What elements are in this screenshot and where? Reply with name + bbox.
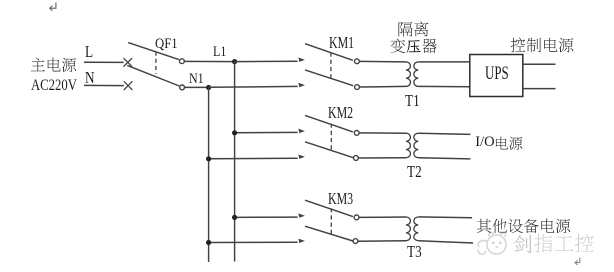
wire T2 output bottom xyxy=(418,158,470,159)
node L1 junction xyxy=(232,59,237,64)
label isolation 隔离 xyxy=(397,21,429,37)
wire N1 to KM1 xyxy=(209,85,298,88)
contactor KM2 pole2 blade xyxy=(305,142,353,158)
wire N lead xyxy=(84,84,124,86)
transformer T1 primary coil xyxy=(406,62,410,87)
wire KM3 to T3 bottom xyxy=(358,240,406,243)
transformer T1 secondary coil xyxy=(414,62,418,87)
bus N1 vertical xyxy=(208,88,210,263)
wire UPS output bottom xyxy=(523,88,556,90)
label main-power 主电源 xyxy=(30,57,77,73)
arrow into KM1 top xyxy=(298,58,305,62)
wire KM2 to T2 bottom xyxy=(358,157,406,159)
label transformer 变压器 xyxy=(390,38,437,54)
contactor KM3 pole2 contact xyxy=(353,239,358,244)
contactor KM2 pole1 blade xyxy=(305,115,353,131)
wire KM2 to T2 top xyxy=(359,132,406,134)
label T1 xyxy=(405,93,420,110)
arrow into KM3 bottom xyxy=(298,239,305,243)
contactor KM1 pole1 blade xyxy=(305,44,353,61)
label T3 xyxy=(407,244,422,261)
wire KM3 to T3 top xyxy=(359,216,406,218)
arrow into KM3 top xyxy=(298,213,305,217)
watermark 剑指工控 xyxy=(513,233,595,253)
label KM1 xyxy=(329,34,354,51)
contactor KM2 pole2 contact xyxy=(354,156,359,161)
junction L1-KM2 tap xyxy=(232,130,237,135)
wire KM1 to T1 top xyxy=(359,60,406,63)
label other-equip-power 其他设备电源 xyxy=(476,218,571,234)
transformer T3 primary coil xyxy=(406,217,410,241)
contactor KM3 pole1 contact xyxy=(354,215,359,220)
contactor KM1 pole1 contact xyxy=(355,59,360,64)
label QF1 xyxy=(155,37,178,52)
node N1 junction xyxy=(206,85,211,90)
wire T3 output top xyxy=(418,216,472,219)
terminal x N xyxy=(124,81,133,90)
watermark logo icon xyxy=(478,232,506,254)
wire T1 to UPS top xyxy=(418,61,470,63)
label control-power 控制电源 xyxy=(510,37,574,53)
wire L1 bus to KM3 xyxy=(235,216,298,218)
contactor KM1 pole2 blade xyxy=(305,70,353,86)
breaker QF1 link (dashed) xyxy=(155,52,157,75)
wire N1 bus to KM3 xyxy=(209,241,298,243)
label AC220V xyxy=(31,78,77,94)
junction L1-KM3 tap xyxy=(232,215,237,220)
junction N1-KM3 tap xyxy=(206,240,211,245)
label UPS xyxy=(485,64,509,83)
label L xyxy=(85,44,93,61)
return mark (bottom right) xyxy=(575,258,580,265)
breaker QF1 pole N contact xyxy=(180,85,185,90)
breaker QF1 pole L contact xyxy=(180,59,185,64)
transformer T3 secondary coil xyxy=(414,217,418,241)
arrow into KM2 bottom xyxy=(298,155,305,159)
bus L1 vertical xyxy=(234,62,236,262)
UPS unit box xyxy=(470,55,523,97)
label IO-power 电源 xyxy=(494,136,523,151)
wire KM1 to T1 bottom xyxy=(359,85,406,88)
contactor KM1 link (dashed) xyxy=(330,53,332,79)
contactor KM2 link (dashed) xyxy=(330,124,332,150)
wire L1 bus to KM2 xyxy=(235,131,298,133)
wire QF1 to L1 xyxy=(184,60,234,62)
arrow into KM2 top xyxy=(298,129,305,133)
contactor KM3 pole1 blade xyxy=(305,200,353,216)
arrow into KM1 bottom xyxy=(298,83,305,87)
return mark (top) xyxy=(50,2,56,10)
transformer T2 secondary coil xyxy=(414,133,418,158)
wire T3 output bottom xyxy=(418,241,473,243)
label KM2 xyxy=(328,104,353,121)
breaker QF1 pole N blade xyxy=(127,65,179,86)
contactor KM3 link (dashed) xyxy=(330,208,332,234)
label I/O xyxy=(475,135,494,150)
label L1 xyxy=(213,45,226,60)
wire N1 bus to KM2 xyxy=(209,157,298,160)
terminal x L xyxy=(124,58,133,67)
junction N1-KM2 tap xyxy=(206,156,211,161)
wire QF1 to N1 xyxy=(185,86,209,88)
wire T2 output top xyxy=(418,133,470,134)
breaker QF1 pole L blade xyxy=(128,43,179,60)
label KM3 xyxy=(328,190,353,207)
label N1 xyxy=(189,72,204,87)
label T2 xyxy=(407,164,422,181)
label N xyxy=(85,70,95,87)
contactor KM2 pole1 contact xyxy=(354,131,359,136)
wire L lead xyxy=(84,61,124,63)
contactor KM1 pole2 contact xyxy=(355,85,360,90)
wire UPS output top xyxy=(523,63,556,65)
wire L1 to KM1 xyxy=(235,60,298,62)
contactor KM3 pole2 blade xyxy=(305,226,353,241)
wire T1 to UPS bottom xyxy=(418,85,470,87)
transformer T2 primary coil xyxy=(406,133,410,158)
